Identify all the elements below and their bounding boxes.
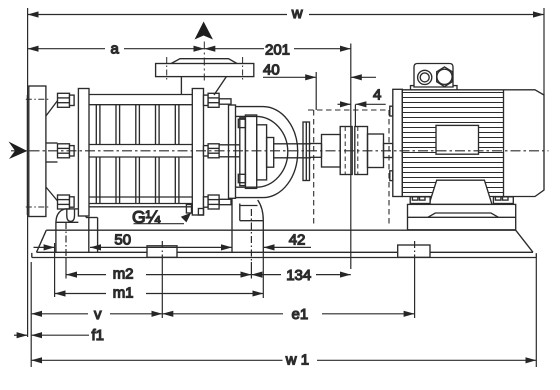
pump foot right (volute foot) [232,198,263,252]
baseplate right bevel [516,230,533,252]
stack bottom tie-bar top edge [89,196,192,198]
tie-rod nut left middle [58,144,75,158]
svg-text:w 1: w 1 [285,352,309,369]
svg-text:201: 201 [265,42,290,59]
stage stack left end plate [78,89,89,217]
motor base block [408,204,516,229]
svg-text:m2: m2 [113,266,134,283]
baseplate front lower edge [32,257,537,259]
suction flow arrow [9,142,28,160]
baseplate lug left [147,246,177,257]
tie-rod nut right bottom [204,195,220,209]
discharge flange bolt tick right [242,57,244,80]
dimension w1 [31,359,536,361]
motor terminal box base [411,86,458,90]
svg-text:42: 42 [289,232,306,249]
motor body outline [402,90,544,197]
volute outer contour [236,107,298,198]
stack top tie-bar top edge [89,94,192,96]
G quarter leader arrow [181,213,191,223]
shaft stub right of stack [219,145,240,157]
stack mid shaft band bottom [89,156,192,158]
dimension e1 [162,313,414,315]
suction casing cone bottom [46,187,58,202]
shaft end reference extension [315,72,317,110]
seal gland D [267,138,274,168]
baseplate left corner edge [31,253,33,258]
pump shaft through volute [274,144,311,158]
bearing plate A bolt bottom [238,174,245,182]
svg-text:e1: e1 [292,306,309,323]
discharge flange [156,64,254,77]
motor base block chamfer ridge [428,213,499,217]
lug1 centerline dash [161,241,163,259]
lug2 extension [414,259,416,318]
dimension 50 [34,246,233,248]
baseplate lug right [398,245,430,257]
svg-text:w: w [291,5,303,22]
discharge flange bolt tick left [166,57,168,80]
motor fin lines [402,93,503,193]
coupling reference long extension [350,44,352,270]
svg-text:50: 50 [114,232,131,249]
baseplate right corner edge [535,253,537,257]
suction hub top line [46,142,58,144]
volute mounting band [229,105,236,198]
dimension m1 [55,293,264,295]
suction hub bottom line [46,161,58,163]
coupling hidden line left [344,127,346,175]
motor foot pad right [493,197,513,204]
bearing plate A [240,118,246,186]
lug2 centerline dash [414,241,416,259]
discharge neck left wall [180,77,182,95]
dimension a [28,48,205,50]
G quarter drain boss [186,205,191,214]
extension line baseplate left edge [30,262,32,367]
anchor bolt centerline left [65,222,67,258]
baseplate right edge extension [535,258,537,368]
motor front end plate [393,89,403,196]
coupling left shaft block [322,135,341,168]
extension line left (suction face) [27,8,29,337]
G quarter leader underline [134,223,185,225]
bearing frame flange mid line [305,122,307,181]
coupling guard dashed outline [308,110,389,226]
extension line plate left corner (m1) [54,243,56,297]
bearing frame flange [303,122,310,181]
stack bottom edge [89,203,192,205]
baseplate rail top edge [46,229,515,231]
discharge pipe centerline [203,42,205,81]
stack shell top edge [89,104,192,106]
lug1 extension [161,259,163,318]
tie-rod nut left bottom [58,195,75,209]
dimension m2 [66,274,251,276]
stage stack right end plate [192,89,203,216]
svg-text:134: 134 [286,267,311,284]
coupling gap right face extension [354,105,356,127]
bearing plate A bolt top [238,119,245,127]
dimension 134 [251,274,350,276]
motor fin section boundary [503,90,505,197]
motor foot bracket trapezoid [429,180,492,204]
tie-rod nut left top [58,93,75,107]
svg-text:40: 40 [263,62,280,79]
dimension 4 [338,103,386,105]
coupling hidden line right [357,127,359,175]
discharge flange raised face [171,59,237,64]
baseplate top surface line [37,251,534,253]
suction flange bolt centerline lower [26,206,49,208]
discharge flow arrow [195,22,214,40]
anchor bolt left extension [65,258,67,279]
tie-rod nut right top [204,93,220,107]
pump suction flange [29,86,46,217]
pump suction gasket face line [26,95,28,215]
volute inner contour [236,116,288,187]
discharge neck right wall [214,77,226,95]
baseplate left bevel [37,230,47,252]
coupling right shaft block [368,134,384,168]
motor base block mid line [408,216,516,218]
motor front plate notch top [390,106,393,116]
terminal box plug hexagon [437,67,453,87]
motor nameplate [436,125,479,154]
svg-text:v: v [94,306,102,323]
stack bottom tie-bar bottom edge [89,206,192,208]
svg-text:a: a [111,41,120,58]
suction casing cone top [46,100,58,116]
terminal box cable gland circle [418,70,432,84]
dimension f1 outside arrow [14,334,28,336]
bearing housing C [257,125,267,180]
dimension 42 [264,246,312,248]
stage joint ribs [96,105,179,204]
pump foot centerline extension [250,262,252,279]
coupling right hub [355,127,368,175]
motor front plate notch bottom [390,171,393,181]
dimension 40 [263,76,376,78]
tie-rod stub bottom right [219,199,231,204]
svg-text:f1: f1 [92,327,105,344]
suction flange bolt centerline upper [26,98,49,100]
dimension f1 [31,334,89,336]
coupling left hub [340,127,352,175]
foot right edge extension [262,252,264,298]
svg-text:m1: m1 [113,285,134,302]
dimension 201 [204,48,350,50]
main shaft centerline [11,150,549,152]
motor rear extension [543,8,545,95]
svg-text:4: 4 [373,87,381,104]
bearing plate B [245,115,256,188]
stack mid shaft band top [89,144,192,146]
dimension w [28,14,544,16]
motor foot pad left [410,197,430,204]
right end plate bottom notch [198,209,203,216]
tie-rod stub top right [219,99,231,104]
motor shaft stub [384,144,393,158]
pump shaft to coupling [310,144,322,158]
motor terminal box [414,64,453,88]
tie-rod nut right middle [204,144,220,158]
pump foot centerline [250,209,252,262]
pump foot left bracket [56,209,98,252]
dimension v [31,313,162,315]
